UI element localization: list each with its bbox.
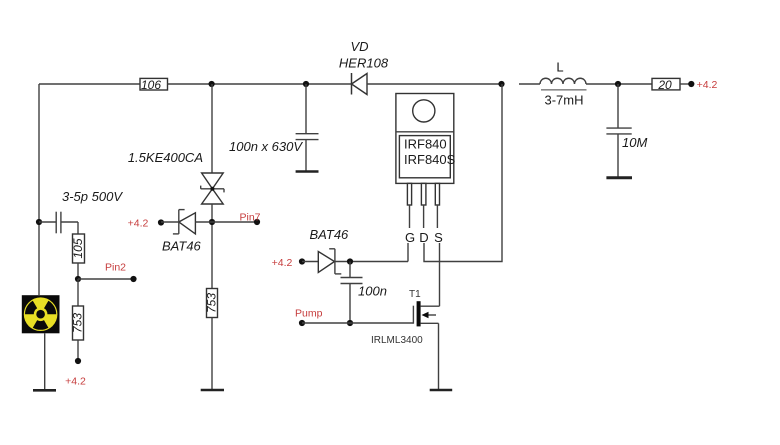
wire 753 to ground bbox=[211, 318, 213, 390]
svg-text:D: D bbox=[419, 230, 428, 245]
svg-text:L: L bbox=[556, 60, 563, 75]
wire +4.2 to diode bbox=[161, 221, 179, 223]
wire pin3 lead bbox=[436, 205, 438, 228]
node rail-TVS junction bbox=[209, 81, 215, 87]
wire D down and right to HV rail bbox=[424, 84, 502, 262]
wire 753 bottom bbox=[77, 340, 79, 361]
svg-text:105: 105 bbox=[71, 238, 85, 258]
pin 3 (S) of package bbox=[435, 183, 439, 205]
svg-text:BAT46: BAT46 bbox=[162, 239, 202, 254]
node Pump terminal bbox=[299, 320, 305, 326]
ground under 753 bbox=[201, 389, 224, 392]
ground under tube bbox=[33, 389, 56, 392]
resistor 20 bbox=[652, 78, 680, 90]
node gate-cap junction bbox=[347, 258, 353, 264]
resistor 106 bbox=[140, 78, 168, 90]
TVS 1.5KE400CA bbox=[201, 173, 224, 204]
wire TVS column top bbox=[211, 84, 213, 173]
ground under T1 bbox=[430, 389, 453, 392]
wire 105 to junction bbox=[77, 263, 79, 279]
svg-text:IRF840S: IRF840S bbox=[404, 152, 456, 167]
svg-text:IRLML3400: IRLML3400 bbox=[371, 335, 423, 346]
wire Pin2 stub bbox=[78, 278, 134, 280]
node +4.2 terminal at BAT46 lower bbox=[299, 258, 305, 264]
diode VD HER108 bbox=[352, 73, 368, 95]
pin 1 (G) of package bbox=[407, 183, 411, 205]
capacitor 10M bbox=[606, 84, 631, 177]
capacitor 100n x 630V bbox=[296, 84, 319, 171]
svg-text:100n: 100n bbox=[358, 284, 387, 299]
svg-text:753: 753 bbox=[71, 313, 85, 333]
transistor T1 IRLML3400 bbox=[409, 289, 440, 326]
node Pin2 terminal bbox=[130, 276, 136, 282]
ground under 630V cap bbox=[296, 170, 319, 172]
capacitor 3-5p 500V bbox=[39, 212, 78, 234]
svg-text:Pin7: Pin7 bbox=[239, 212, 260, 224]
resistor 105 bbox=[73, 234, 85, 263]
svg-text:BAT46: BAT46 bbox=[310, 227, 350, 242]
wire T1 source to ground bbox=[438, 323, 440, 389]
diode BAT46 lower (pump clamp) bbox=[318, 249, 341, 274]
capacitor 100n (pump) bbox=[341, 262, 363, 324]
svg-text:100n x 630V: 100n x 630V bbox=[229, 139, 303, 154]
node Pin7 junction bbox=[209, 219, 215, 225]
svg-text:106: 106 bbox=[141, 78, 161, 92]
wire Pin7 stub bbox=[212, 221, 257, 223]
wire pin2 lead bbox=[423, 205, 425, 228]
resistor 753 left bbox=[73, 306, 84, 340]
wire TVS to Pin7 junction bbox=[211, 204, 213, 289]
svg-text:G: G bbox=[405, 230, 415, 245]
node pump junction bbox=[347, 320, 353, 326]
node rail right junction bbox=[498, 81, 504, 87]
wire G to gate row bbox=[407, 243, 409, 262]
node left cap junction bbox=[36, 219, 42, 225]
resistor 753 middle bbox=[207, 289, 218, 318]
node +4.2 output terminal bbox=[688, 81, 694, 87]
svg-text:Pump: Pump bbox=[295, 308, 323, 320]
Geiger tube (radiation symbol) bbox=[22, 295, 60, 333]
wire junction to 753 bbox=[77, 279, 79, 306]
node +4.2 terminal left bbox=[75, 358, 81, 364]
svg-text:10M: 10M bbox=[622, 135, 647, 150]
wire top rail right of HER108 bbox=[367, 83, 502, 85]
wire diode to Pin7 junction bbox=[195, 221, 212, 223]
diode BAT46 upper (to Pin7) bbox=[173, 210, 196, 234]
wire pin1 lead bbox=[409, 205, 411, 228]
svg-text:20: 20 bbox=[657, 78, 672, 92]
wire left vertical bbox=[38, 84, 40, 295]
wire pump row bbox=[302, 322, 413, 324]
svg-text:IRF840: IRF840 bbox=[404, 137, 447, 152]
wire tube bottom bbox=[44, 333, 46, 389]
node Pin2 junction bbox=[75, 276, 81, 282]
svg-text:3-7mH: 3-7mH bbox=[544, 93, 583, 108]
node Pin7 terminal bbox=[254, 219, 260, 225]
node inductor-10M junction bbox=[615, 81, 621, 87]
svg-text:753: 753 bbox=[205, 293, 219, 313]
wire inductor left lead bbox=[519, 83, 540, 85]
svg-text:T1: T1 bbox=[409, 289, 421, 300]
svg-text:+4.2: +4.2 bbox=[272, 257, 293, 269]
svg-text:VD: VD bbox=[350, 39, 368, 54]
pin 2 (D) of package bbox=[421, 183, 426, 205]
wire output lead bbox=[680, 83, 689, 85]
svg-text:+4.2: +4.2 bbox=[128, 218, 149, 230]
svg-text:1.5KE400CA: 1.5KE400CA bbox=[128, 150, 203, 165]
svg-text:HER108: HER108 bbox=[339, 56, 389, 71]
wire top rail middle segment bbox=[168, 83, 352, 85]
svg-text:+4.2: +4.2 bbox=[65, 376, 86, 388]
ground under 10M bbox=[606, 176, 632, 179]
transistor U1 package TO-220 IRF840 bbox=[396, 94, 456, 184]
inductor L 3-7mH bbox=[540, 78, 587, 90]
svg-text:+4.2: +4.2 bbox=[697, 79, 718, 91]
wire +4.2 to diode bbox=[302, 261, 318, 263]
svg-text:S: S bbox=[434, 230, 443, 245]
svg-text:Pin2: Pin2 bbox=[105, 262, 126, 274]
wire top rail left segment bbox=[39, 83, 140, 85]
svg-text:3-5p 500V: 3-5p 500V bbox=[62, 189, 123, 204]
wire diode to gate node bbox=[335, 261, 408, 263]
node +4.2 terminal at BAT46 left bbox=[158, 219, 164, 225]
wire S down to T1 drain bbox=[439, 243, 441, 306]
wire inductor right lead bbox=[586, 83, 652, 85]
node rail-630V junction bbox=[303, 81, 309, 87]
